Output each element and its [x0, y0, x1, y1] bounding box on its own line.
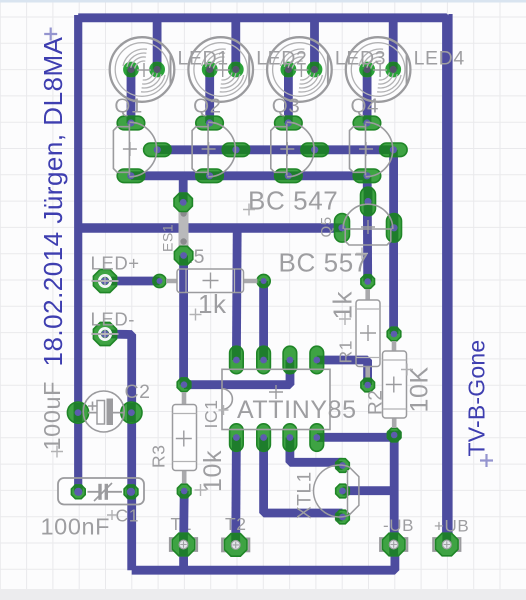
IC1 pad 7 — [257, 424, 271, 452]
Q5 pad 2 — [361, 187, 376, 216]
Q5 pad 1 — [335, 214, 350, 243]
resistor R5 body fill — [177, 269, 244, 293]
wire Q4 emitter to Q5 and R1 — [363, 176, 372, 282]
capacitor C2 body fill — [83, 391, 124, 432]
svg-text:100uF: 100uF — [39, 381, 65, 451]
svg-text:+UB: +UB — [434, 517, 469, 536]
+UB pad — [436, 533, 459, 556]
100uF label — [39, 381, 65, 451]
R2 label — [366, 390, 387, 416]
wire top rail with right edge to +UB — [78, 14, 452, 542]
wire LED1 anode stub — [153, 18, 162, 70]
svg-text:TV-B-Gone: TV-B-Gone — [464, 340, 490, 457]
XTL1 pad 1 — [336, 459, 350, 473]
Q2 pad 1 — [196, 116, 224, 130]
R3 value label — [199, 450, 227, 492]
BC 557 label — [279, 248, 369, 278]
Q2 pad 2 — [222, 143, 250, 157]
T2 label — [225, 514, 247, 534]
R2 pad bottom — [387, 428, 401, 442]
T1 label — [171, 514, 193, 534]
Q3 pad 1 — [275, 116, 303, 130]
C2 label — [125, 381, 151, 403]
wire Q emitter rail — [131, 171, 367, 180]
transistor Q5 body fill — [344, 205, 392, 245]
wire IC pin5 to R2 to -UB — [317, 435, 394, 544]
Q4 silkscreen — [350, 122, 393, 177]
LED- pad — [92, 322, 119, 345]
XTL1 pad 2 — [336, 484, 350, 498]
IC1 pad 2 — [257, 346, 271, 374]
T1 pad silk frame — [170, 538, 197, 551]
100nF label — [41, 514, 111, 540]
Q1 label — [114, 95, 143, 118]
wire LED2 anode stub — [231, 18, 240, 70]
date text origin cross — [44, 28, 57, 41]
Q4 label — [351, 95, 380, 118]
TV-B-Gone origin cross — [480, 454, 493, 467]
wire mid rail to Q5 — [78, 223, 342, 233]
wire LED3 anode stub — [310, 18, 319, 70]
IC1 silkscreen — [222, 369, 330, 429]
svg-text:ATTINY85: ATTINY85 — [237, 396, 357, 424]
svg-text:C2: C2 — [125, 381, 151, 403]
TV-B-Gone text — [464, 340, 490, 457]
resistor R3 body fill — [173, 405, 197, 471]
T2 pad silk frame — [222, 539, 249, 552]
LED2 cathode pad — [204, 64, 215, 77]
svg-text:Q1: Q1 — [114, 95, 143, 118]
R5 pad right — [257, 274, 270, 287]
IC1 pad 1 — [230, 346, 244, 374]
LED3 label — [335, 48, 386, 70]
T1 pad — [172, 533, 195, 556]
LED3 cathode pad — [283, 64, 294, 77]
svg-text:LED1: LED1 — [178, 48, 229, 70]
resistor R1 body fill — [356, 300, 380, 367]
LED4 silkscreen — [346, 37, 411, 102]
LED2 silkscreen — [188, 37, 253, 102]
svg-text:BC 557: BC 557 — [279, 248, 369, 278]
T2 pad — [224, 534, 247, 557]
IC1 pad 5 — [310, 424, 324, 452]
LED3 body fill — [267, 37, 332, 102]
svg-text:XTL1: XTL1 — [295, 471, 316, 519]
via ES1 bottom — [174, 246, 192, 264]
svg-text:R1: R1 — [336, 340, 356, 364]
svg-text:T2: T2 — [225, 514, 247, 534]
svg-text:BC 547: BC 547 — [248, 186, 338, 216]
C1 pad right — [124, 485, 138, 499]
wire mid rail to IC pin1 — [232, 228, 242, 360]
R1 pad top — [361, 275, 375, 289]
svg-text:100nF: 100nF — [41, 514, 111, 540]
LED1 body fill — [110, 37, 175, 102]
wire R5 to IC pin2 — [259, 281, 268, 360]
-UB pad — [382, 533, 405, 556]
wire R3 to IC pin3 — [184, 362, 290, 385]
Q3 silkscreen — [271, 122, 314, 177]
Q4 pad 3 — [353, 169, 381, 183]
svg-text:LED+: LED+ — [91, 253, 140, 274]
Q1 silkscreen — [113, 122, 156, 177]
wire left rail — [74, 15, 82, 492]
svg-text:LED3: LED3 — [335, 48, 386, 70]
IC1 pad 8 — [230, 424, 244, 452]
Q3 pad 2 — [301, 143, 329, 157]
date and author text — [38, 36, 68, 366]
R1 label — [336, 340, 356, 364]
LED2 label — [256, 48, 307, 70]
LED1 cathode pad — [125, 64, 136, 77]
transistor Q2 body fill — [192, 128, 219, 172]
svg-text:ES1: ES1 — [160, 224, 176, 252]
transistor Q4 body fill — [350, 128, 377, 172]
IC1 body fill — [222, 369, 330, 429]
LED- label — [91, 309, 136, 330]
svg-text:10k: 10k — [199, 450, 227, 492]
ES1 label — [160, 224, 176, 252]
Q1 pad 1 — [117, 116, 145, 130]
transistor Q1 body fill — [113, 128, 140, 172]
wire Q collector rail — [157, 150, 393, 334]
Q3 label — [272, 95, 301, 118]
wire R3 to T1 to gnd — [179, 491, 188, 570]
IC1 pad 6 — [283, 424, 297, 452]
svg-text:R2: R2 — [366, 390, 387, 416]
-UB label — [383, 516, 414, 535]
wire LED+ to R5 — [105, 277, 160, 286]
svg-text:C1: C1 — [116, 506, 140, 526]
LED1 anode pad — [152, 62, 163, 75]
BC 547 label — [248, 186, 338, 216]
LED3 silkscreen — [267, 37, 332, 102]
IC1 pad 4 — [310, 346, 324, 374]
LED4 body fill — [346, 37, 411, 102]
Q1 pad 3 — [117, 169, 145, 183]
Q1 pad 2 — [144, 143, 172, 157]
svg-text:10K: 10K — [406, 366, 434, 412]
wire IC pin4 to R1 — [317, 360, 368, 385]
svg-text:Q4: Q4 — [351, 95, 380, 118]
svg-text:R3: R3 — [149, 444, 169, 468]
XTL1 label — [295, 471, 316, 519]
wire emitter rail to via ES1 — [179, 176, 188, 202]
R2 value label — [406, 366, 434, 412]
LED+ label — [91, 253, 140, 274]
XTL1 body fill — [313, 465, 358, 517]
wire ground bottom rail — [132, 544, 395, 570]
svg-text:Q5: Q5 — [318, 216, 335, 237]
IC1 label — [201, 399, 221, 428]
R5 pad left — [153, 274, 166, 287]
R5 label — [179, 246, 205, 268]
svg-text:1k: 1k — [328, 290, 358, 319]
wire LED2 to Q2 base — [205, 70, 214, 124]
XTL1 pad 3 — [336, 510, 350, 524]
C1 label — [116, 506, 140, 526]
wire LED3 to Q3 base — [284, 70, 293, 124]
R3 pad top — [177, 378, 191, 392]
R3 pad bottom — [177, 484, 191, 498]
C2 silkscreen — [83, 391, 124, 432]
silk origin crosses — [51, 204, 413, 521]
LED+ pad — [92, 269, 119, 292]
+UB pad silk frame — [433, 538, 460, 551]
Q5 silkscreen — [343, 204, 393, 245]
svg-text:LED4: LED4 — [414, 48, 465, 70]
Q2 label — [193, 95, 222, 118]
resistor R2 body fill — [383, 351, 407, 418]
svg-text:Q2: Q2 — [193, 95, 222, 118]
LED1 label — [178, 48, 229, 70]
Q5 label — [318, 216, 335, 237]
Q2 pad 3 — [196, 169, 224, 183]
R5 value label — [198, 289, 227, 319]
LED2 body fill — [188, 37, 253, 102]
C2 pad left — [67, 402, 88, 423]
wire LED4 to Q4 base — [363, 70, 372, 124]
wire via ES1 bottom to R3 — [179, 256, 188, 386]
R3 label — [149, 444, 169, 468]
svg-text:LED-: LED- — [91, 309, 136, 330]
wire LED1 to Q1 base — [127, 70, 136, 124]
R1 pad bottom — [361, 378, 375, 392]
wire IC pin6 to XTL1 top — [290, 438, 343, 463]
ATTINY85 label — [237, 396, 357, 424]
svg-text:1k: 1k — [198, 289, 227, 319]
LED4 cathode pad — [362, 64, 373, 77]
R1 value label — [328, 290, 358, 319]
wire LED4 anode stub — [389, 18, 398, 70]
Q5 pad 3 — [387, 214, 402, 243]
LED4 anode pad — [388, 62, 399, 75]
wire LED- down through C2 — [105, 334, 132, 570]
LED2 anode pad — [230, 62, 241, 75]
-UB pad silk frame — [380, 538, 407, 551]
Q3 pad 3 — [275, 169, 303, 183]
Q4 pad 2 — [380, 143, 408, 157]
Q4 pad 1 — [353, 116, 381, 130]
IC1 pad 3 — [283, 346, 297, 374]
ES1 silkscreen — [179, 209, 189, 253]
wire IC pin8 to T2 — [231, 438, 240, 545]
wire IC pin7 to XTL1 — [264, 438, 343, 514]
R2 silkscreen — [383, 341, 407, 428]
svg-text:-UB: -UB — [383, 516, 414, 535]
capacitor C1 body fill — [58, 478, 144, 505]
svg-text:IC1: IC1 — [201, 399, 221, 428]
R3 silkscreen — [173, 392, 197, 484]
Q2 silkscreen — [192, 122, 235, 177]
via ES1 top — [174, 193, 192, 211]
C1 silkscreen — [58, 478, 144, 505]
R2 pad top — [387, 327, 401, 341]
LED4 label — [414, 48, 465, 70]
transistor Q3 body fill — [271, 128, 298, 172]
XTL1 silkscreen — [313, 465, 358, 517]
R1 silkscreen — [356, 289, 380, 378]
svg-text:18.02.2014 Jürgen, DL8MA: 18.02.2014 Jürgen, DL8MA — [38, 36, 68, 366]
R5 silkscreen — [166, 269, 258, 293]
svg-text:LED2: LED2 — [256, 48, 307, 70]
+UB label — [434, 517, 469, 536]
LED3 anode pad — [309, 62, 320, 75]
wire XTL1 gnd — [343, 486, 396, 495]
C2 pad right — [121, 402, 142, 423]
LED1 silkscreen — [110, 37, 175, 102]
svg-text:Q3: Q3 — [272, 95, 301, 118]
C1 pad left — [71, 485, 85, 499]
